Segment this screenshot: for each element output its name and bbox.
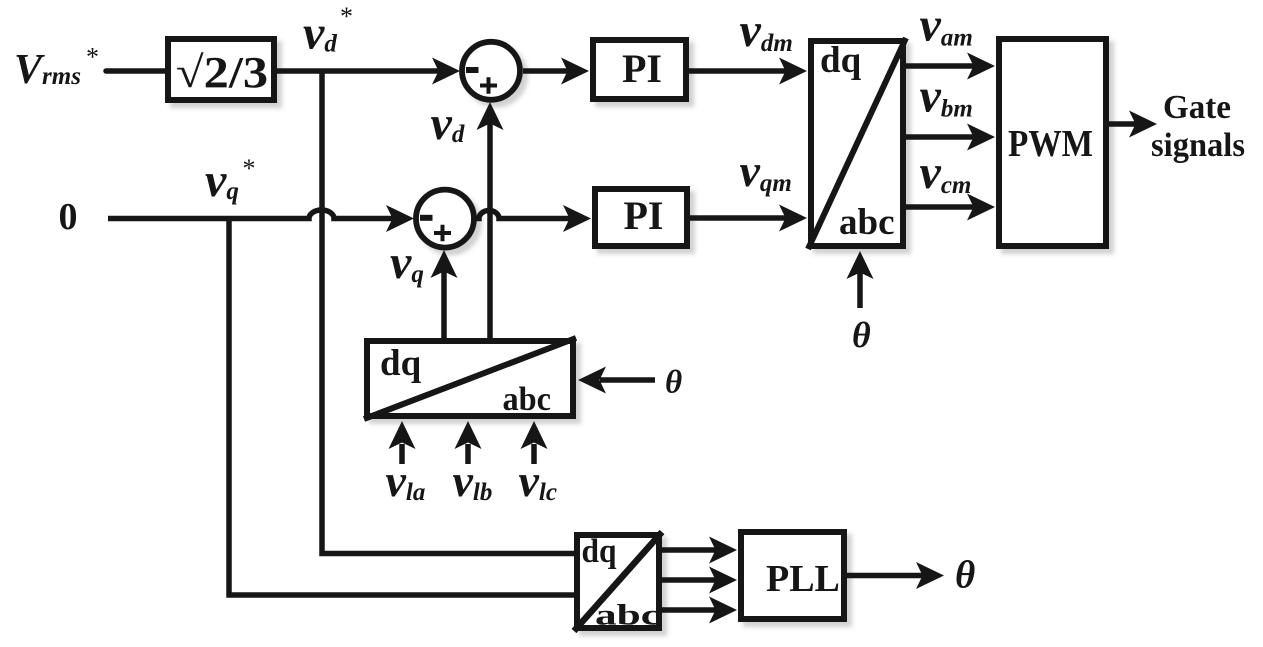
arrowhead vla into U2 bottom xyxy=(389,421,416,449)
gain block √2/3 xyxy=(168,39,274,100)
PI controller block PI1 xyxy=(593,40,686,99)
arrowhead into PI1 xyxy=(561,58,589,85)
svg-text:*: * xyxy=(86,43,99,72)
arrowhead into PWM vam xyxy=(967,53,995,80)
svg-text:vq: vq xyxy=(390,236,424,289)
summing junction S2 xyxy=(416,190,474,248)
wire Vrms* to sqrt block xyxy=(106,68,166,74)
node vd* branch vertical wire down to PLL dq block xyxy=(322,71,574,554)
svg-text:abc: abc xyxy=(503,381,552,418)
PWM block xyxy=(999,39,1106,246)
svg-text:θ: θ xyxy=(665,365,682,401)
wire PI1 to dq-abc block U1, signal vdm xyxy=(689,68,790,74)
svg-text:vlc: vlc xyxy=(519,455,557,506)
arrowhead vlc into U2 bottom xyxy=(521,421,548,449)
svg-text:vla: vla xyxy=(386,455,426,506)
wire U3 to PLL top xyxy=(662,547,720,553)
PI controller block PI2 xyxy=(595,189,687,246)
svg-text:Vrms: Vrms xyxy=(14,47,81,93)
svg-text:vdm: vdm xyxy=(740,4,793,57)
wire sqrt block to summing junction S1 xyxy=(277,68,444,74)
svg-text:vam: vam xyxy=(920,0,973,52)
svg-text:abc: abc xyxy=(839,202,895,243)
svg-text:θ: θ xyxy=(852,315,871,355)
wire PI2 to U1, signal vqm xyxy=(690,215,790,221)
arrowhead into S1 xyxy=(432,58,460,85)
svg-text:vcm: vcm xyxy=(920,146,972,199)
wire vlc input arrow shaft xyxy=(531,444,537,464)
svg-text:θ: θ xyxy=(955,554,975,597)
wire vlb input arrow shaft xyxy=(465,444,471,464)
PLL block xyxy=(741,532,844,619)
wire U1 to PWM, signal vcm xyxy=(906,204,978,210)
wire vd from U2 up to S1 xyxy=(487,120,493,338)
svg-text:PWM: PWM xyxy=(1008,123,1093,165)
arrowhead vd into S1 bottom xyxy=(477,102,504,130)
wire U3 to PLL bottom xyxy=(662,607,720,613)
wire U3 to PLL middle xyxy=(662,577,720,583)
svg-text:PI: PI xyxy=(622,46,662,91)
svg-text:vqm: vqm xyxy=(740,145,792,197)
wire vla input arrow shaft xyxy=(399,444,405,464)
minus sign of S2 xyxy=(420,215,433,221)
arrowhead into PLL middle xyxy=(709,567,737,594)
svg-text:signals: signals xyxy=(1151,127,1245,164)
wire S2 to PI2 with hop over vd line xyxy=(474,211,574,219)
arrowhead into S2 xyxy=(386,205,414,232)
svg-text:*: * xyxy=(340,2,353,31)
minus sign of S1 xyxy=(466,67,479,73)
transform block U2 dq to abc xyxy=(367,341,573,416)
arrowhead into PLL bottom xyxy=(709,597,737,624)
wire PLL to theta output xyxy=(847,573,926,579)
wire vq from U2 up to S2 xyxy=(441,268,447,338)
svg-text:PLL: PLL xyxy=(766,558,840,600)
plus sign of S1 xyxy=(480,77,497,94)
svg-text:dq: dq xyxy=(820,40,862,81)
transform block U3 dq to abc for PLL xyxy=(577,535,659,628)
svg-text:vd: vd xyxy=(431,97,465,150)
wire U1 to PWM, signal vam xyxy=(906,63,978,69)
wire U1 to PWM, signal vbm xyxy=(906,134,978,140)
arrowhead into U1 from PI2 xyxy=(779,205,807,232)
svg-text:vd: vd xyxy=(303,7,337,60)
arrowhead vq into S2 bottom xyxy=(431,250,458,278)
svg-text:vlb: vlb xyxy=(453,455,493,506)
plus sign of S2 xyxy=(434,225,451,242)
svg-text:Gate: Gate xyxy=(1163,89,1231,126)
svg-text:vbm: vbm xyxy=(920,70,973,123)
arrowhead theta into U2 right side xyxy=(578,367,606,394)
wire 0 input to summing junction S2 with branch and hop over vd* line xyxy=(108,210,398,219)
transform block U1 dq to abc xyxy=(811,41,903,246)
wire theta input to U2 xyxy=(600,377,655,383)
arrowhead into PI2 xyxy=(563,205,591,232)
diagonal of U1 xyxy=(808,38,906,249)
svg-text:PI: PI xyxy=(624,193,664,238)
diagonal of U2 xyxy=(364,338,576,419)
svg-text:*: * xyxy=(243,154,256,183)
svg-text:dq: dq xyxy=(380,343,422,384)
svg-text:0: 0 xyxy=(59,196,78,238)
arrowhead into PWM vcm xyxy=(967,194,995,221)
svg-text:vq: vq xyxy=(205,154,239,207)
svg-text:abc: abc xyxy=(595,599,660,632)
wire theta input to U1 xyxy=(857,270,863,308)
arrowhead gate signals output xyxy=(1129,111,1157,138)
arrowhead into PWM vbm xyxy=(967,124,995,151)
diagonal of U3 xyxy=(574,532,662,631)
node vq* branch vertical wire down to PLL dq block xyxy=(229,219,574,596)
arrowhead theta into U1 bottom xyxy=(847,251,874,279)
wire S1 to PI1 xyxy=(523,68,572,74)
svg-text:√2/3: √2/3 xyxy=(176,48,268,97)
arrowhead theta output of PLL xyxy=(916,562,944,589)
arrowhead vlb into U2 bottom xyxy=(455,421,482,449)
svg-text:dq: dq xyxy=(582,533,617,570)
wire PWM to gate signals output xyxy=(1109,121,1140,127)
arrowhead into U1 from PI1 xyxy=(779,58,807,85)
arrowhead into PLL top xyxy=(709,537,737,564)
summing junction S1 xyxy=(462,42,520,100)
